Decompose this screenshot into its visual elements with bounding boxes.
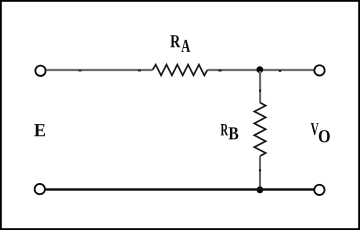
wire: top-left terminal to R_A [47, 69, 153, 71]
wire: R_A to junction and to top-right terminal [208, 69, 314, 71]
label R_A : subscript A [181, 40, 190, 52]
wire: top junction down to R_B [259, 71, 261, 103]
terminal: input bottom-left [35, 184, 45, 194]
tick mark on top wire (x~280) [279, 70, 281, 72]
junction node: bottom [257, 186, 264, 193]
label V_O : V [311, 123, 319, 135]
label R_B : subscript B [229, 127, 239, 139]
terminal: output bottom-right [314, 185, 324, 195]
label R_B : R [221, 124, 229, 135]
tick mark on upper vertical wire (y~90.5) [259, 90, 261, 92]
label R_A : R [170, 35, 180, 47]
terminal: input top-left [35, 66, 45, 76]
resistor R_A [153, 65, 208, 76]
terminal: output top-right [314, 65, 324, 75]
tick mark on top wire (x~80) [79, 70, 82, 72]
tick mark on lower vertical wire (y~170) [259, 169, 261, 171]
tick mark on top wire (x~220) [218, 70, 221, 72]
wire: R_B down to bottom junction [259, 156, 261, 188]
resistor R_B [254, 103, 265, 157]
junction node: top [256, 66, 263, 73]
wire: bottom rail [46, 188, 314, 190]
label V_O : subscript O [319, 130, 330, 142]
label E (source) [34, 124, 45, 136]
tick mark on top wire (x~139) [138, 70, 141, 72]
